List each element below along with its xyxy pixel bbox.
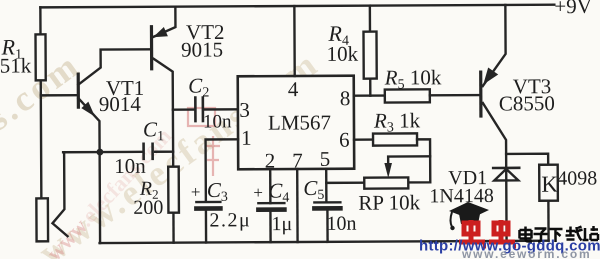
svg-text:4: 4	[288, 77, 299, 101]
svg-text:2: 2	[265, 149, 276, 173]
svg-text:R3 1k: R3 1k	[373, 108, 421, 135]
svg-text:C8550: C8550	[499, 91, 555, 115]
svg-text:9014: 9014	[99, 92, 142, 116]
svg-text:10n: 10n	[203, 111, 232, 132]
svg-text:K: K	[541, 172, 558, 197]
svg-text:+9V: +9V	[554, 0, 592, 18]
svg-text:10n: 10n	[114, 154, 146, 178]
svg-text:9015: 9015	[181, 37, 223, 61]
svg-text:4098: 4098	[557, 167, 597, 189]
svg-text:6: 6	[339, 128, 350, 152]
svg-text:10n: 10n	[326, 213, 356, 235]
svg-text:1N4148: 1N4148	[429, 185, 494, 207]
svg-text:R5 10k: R5 10k	[384, 65, 442, 92]
svg-text:5: 5	[320, 147, 331, 171]
svg-text:+: +	[191, 183, 201, 202]
svg-text:7: 7	[292, 148, 303, 172]
svg-text:3: 3	[239, 98, 250, 122]
svg-text:RP 10k: RP 10k	[358, 190, 420, 214]
svg-text:10k: 10k	[327, 42, 359, 66]
svg-text:LM567: LM567	[268, 110, 331, 134]
svg-text:200: 200	[133, 197, 163, 219]
svg-text:1μ: 1μ	[271, 213, 292, 235]
svg-text:+: +	[253, 183, 263, 202]
svg-text:1: 1	[241, 126, 252, 150]
svg-text:www.eeworm.com: www.eeworm.com	[461, 247, 591, 259]
svg-text:2.2μ: 2.2μ	[209, 209, 251, 231]
svg-text:51k: 51k	[0, 53, 32, 77]
svg-text:8: 8	[340, 86, 351, 110]
